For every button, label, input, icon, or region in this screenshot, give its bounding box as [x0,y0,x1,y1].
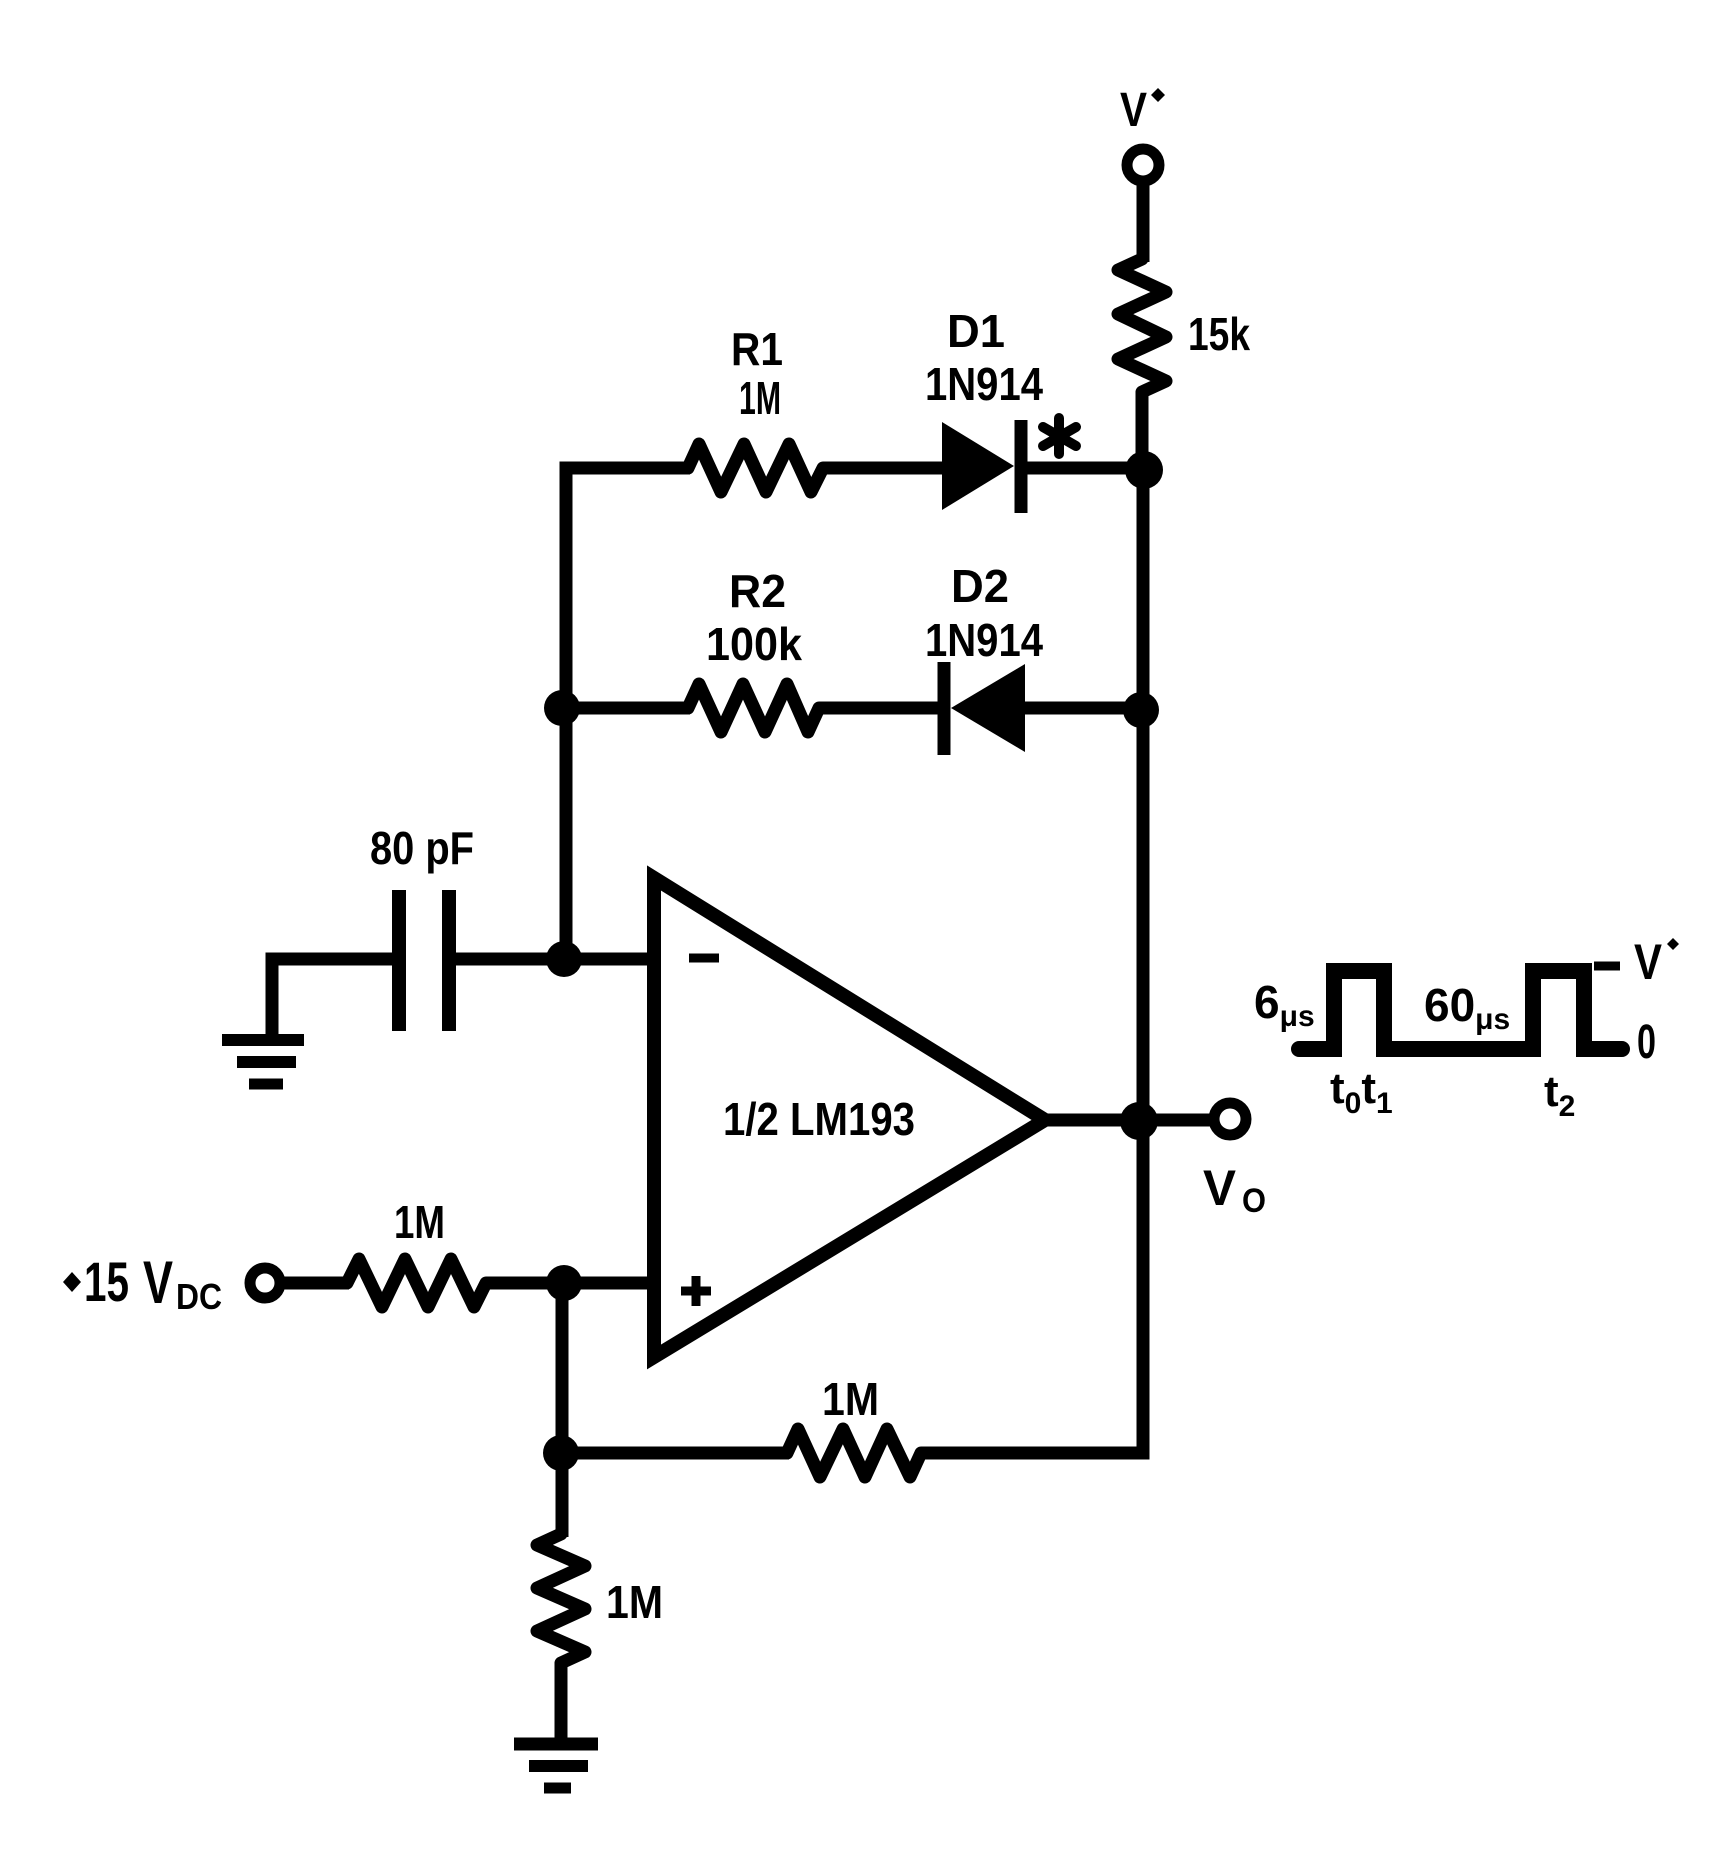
ground (bottom) [514,1744,598,1788]
resistor 15k pull-up [1118,259,1166,392]
node D (inverting input) [546,941,582,977]
diode D2 1N914 [944,662,1025,755]
svg-text:D2: D2 [951,560,1009,612]
terminal Vo output [1214,1103,1246,1135]
waveform trace (output pulses) [1299,971,1622,1049]
svg-text:V: V [1634,934,1663,990]
wire capacitor to inverting input [449,953,654,966]
wire terminal to 1M input resistor [280,1277,349,1290]
wire node F to feedback resistor [561,1447,789,1460]
resistor 1M (to ground) [537,1534,585,1663]
svg-text:O: O [1242,1182,1266,1220]
op-amp plus input mark [681,1276,711,1306]
diode D1 1N914 [942,420,1021,513]
svg-text:1M: 1M [822,1373,879,1425]
wire node E down to node F [556,1283,569,1453]
svg-text:1/2 LM193: 1/2 LM193 [723,1093,915,1145]
terminal +15 VDC input [250,1268,280,1298]
svg-text:1N914: 1N914 [925,358,1043,410]
wire node F down to 1M ground resistor [556,1453,569,1537]
node F (feedback junction) [543,1435,579,1471]
wire D2 anode to right rail [1025,702,1143,715]
svg-text:15: 15 [84,1250,129,1313]
resistor R1 1M [688,444,823,492]
svg-text:1M: 1M [606,1576,663,1628]
node C (right rail / D2 junction) [1123,692,1159,728]
label V+ (waveform high level) [1594,934,1679,990]
wire R2 to D2 cathode [819,702,944,715]
svg-text:D1: D1 [947,305,1005,357]
node B (left rail / R2 junction) [544,690,580,726]
wire capacitor to ground [272,959,399,1040]
svg-text:R1: R1 [731,323,783,375]
node E (non-inverting input) [546,1265,582,1301]
asterisk mark at D1 cathode [1043,418,1076,454]
wire 1M resistor to ground [555,1663,568,1744]
ground (capacitor) [222,1040,304,1084]
node A (D1 cathode / 15k junction) [1125,451,1163,489]
svg-text:0: 0 [1637,1016,1656,1069]
resistor 1M (feedback) [787,1429,921,1477]
wire V+ terminal to 15k resistor [1137,181,1150,262]
node G (output) [1120,1102,1158,1140]
svg-text:100k: 100k [706,618,802,670]
svg-text:1N914: 1N914 [925,614,1043,666]
svg-text:V: V [143,1249,173,1316]
wire left rail and row1 left segment [566,468,690,959]
resistor R2 100k [688,684,819,732]
terminal V+ [1127,149,1159,181]
wire node B to R2 [562,702,690,715]
label Vo [1203,1160,1266,1220]
label +15 VDC [63,1249,222,1317]
wire R1 to D1 anode [823,462,944,475]
capacitor 80 pF [399,890,449,1031]
svg-text:DC: DC [176,1276,222,1317]
wire op-amp output to rail [1045,1114,1143,1127]
svg-text:80 pF: 80 pF [370,822,474,874]
wire 1M to non-inverting input [486,1277,654,1290]
wire output node to output terminal [1139,1114,1213,1127]
svg-text:1M: 1M [739,372,781,424]
svg-text:V: V [1120,84,1147,137]
svg-text:R2: R2 [729,565,786,617]
svg-text:V: V [1203,1160,1237,1216]
wire D1 cathode to node A [1021,462,1143,475]
op-amp U1 1/2 LM193 [654,878,1045,1357]
op-amp minus input mark [689,954,719,963]
svg-text:1M: 1M [394,1196,445,1248]
resistor 1M (non-inverting input) [347,1259,486,1307]
svg-text:15k: 15k [1188,308,1250,360]
wire 15k to node A [1136,392,1149,472]
wire right rail (node A down to feedback corner) [921,470,1143,1453]
label V+ (top supply) [1120,84,1165,137]
